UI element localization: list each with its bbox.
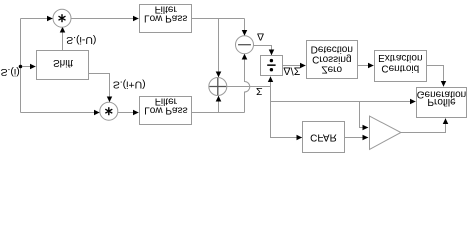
wire: corner down into subtractor top xyxy=(244,19,246,36)
block Low Pass Filter 2 xyxy=(140,97,192,125)
wire: top rail into multiplier A xyxy=(21,18,53,20)
wire: LPF1 output rail xyxy=(192,18,245,20)
wire: LPF2 output rail xyxy=(192,112,245,114)
wire: subtractor output to divider top xyxy=(253,46,271,56)
svg-text:CFAR: CFAR xyxy=(310,132,337,143)
wire: Shift right output to multiplier B xyxy=(89,74,110,102)
multiplier A asterisk xyxy=(59,14,66,22)
block divider xyxy=(261,56,283,76)
wire: branch down to comparator top input xyxy=(360,102,369,128)
node S(i) junction dot xyxy=(19,65,23,69)
svg-text:S.(i+U): S.(i+U) xyxy=(113,78,146,90)
svg-text:S.(i-U): S.(i-U) xyxy=(66,34,96,46)
svg-text:Δ: Δ xyxy=(257,31,264,43)
adder plus sign xyxy=(209,78,226,95)
multiplier B asterisk xyxy=(105,107,112,115)
svg-text:Detection: Detection xyxy=(311,44,353,55)
block Shift xyxy=(37,51,89,80)
block CFAR xyxy=(303,122,345,153)
block Profile Generation xyxy=(417,88,467,118)
wire: branch up into adder bottom xyxy=(218,96,220,113)
svg-text:Extraction: Extraction xyxy=(378,52,422,63)
divider dots xyxy=(270,59,273,72)
svg-text:Σ: Σ xyxy=(256,85,263,97)
multiplier A circle xyxy=(53,9,71,27)
svg-text:Filter: Filter xyxy=(155,4,178,15)
svg-text:Generation: Generation xyxy=(417,89,466,100)
wire: bottom rail into multiplier B xyxy=(21,112,100,114)
multiplier B circle xyxy=(100,102,118,120)
block Zero Crossing Detection xyxy=(307,41,358,79)
wire: sigma up into divider bottom xyxy=(270,77,272,87)
divider bar xyxy=(267,64,275,66)
wire: hop line into subtractor bottom xyxy=(245,54,250,113)
wire: divider to Zero Crossing Detection xyxy=(283,65,306,67)
subtractor circle xyxy=(236,36,254,54)
subtractor minus sign xyxy=(238,44,251,46)
block Low Pass Filter 1 xyxy=(140,5,192,33)
wire: Centroid Extraction to Profile Generation top xyxy=(427,66,444,87)
comparator triangle xyxy=(370,116,401,149)
wire: ZCD to Centroid Extraction xyxy=(358,65,374,67)
wire: sigma to Profile Generation xyxy=(271,101,416,103)
wire: multiplier A to Low Pass Filter 1 xyxy=(71,18,139,20)
wire: branch down into adder top xyxy=(218,19,220,78)
adder circle xyxy=(209,78,227,96)
wire: sigma down then right to CFAR xyxy=(271,87,302,138)
svg-text:Shift: Shift xyxy=(53,57,73,68)
wire: Shift top output to multiplier A xyxy=(62,27,64,51)
wire: comparator output to Profile Generation bottom xyxy=(401,119,446,133)
block Centroid Extraction xyxy=(375,51,427,82)
svg-text:S.(i): S.(i) xyxy=(1,66,20,78)
wire: junction to Shift input xyxy=(22,66,35,68)
wire: multiplier B to Low Pass Filter 2 xyxy=(118,112,139,114)
svg-text:Δ/Σ: Δ/Σ xyxy=(283,65,300,77)
wire: S(i) vertical bus xyxy=(20,19,22,113)
wire: CFAR to comparator bottom input xyxy=(345,137,369,139)
svg-text:Filter: Filter xyxy=(155,96,178,107)
wire: sigma line from adder xyxy=(227,86,271,88)
